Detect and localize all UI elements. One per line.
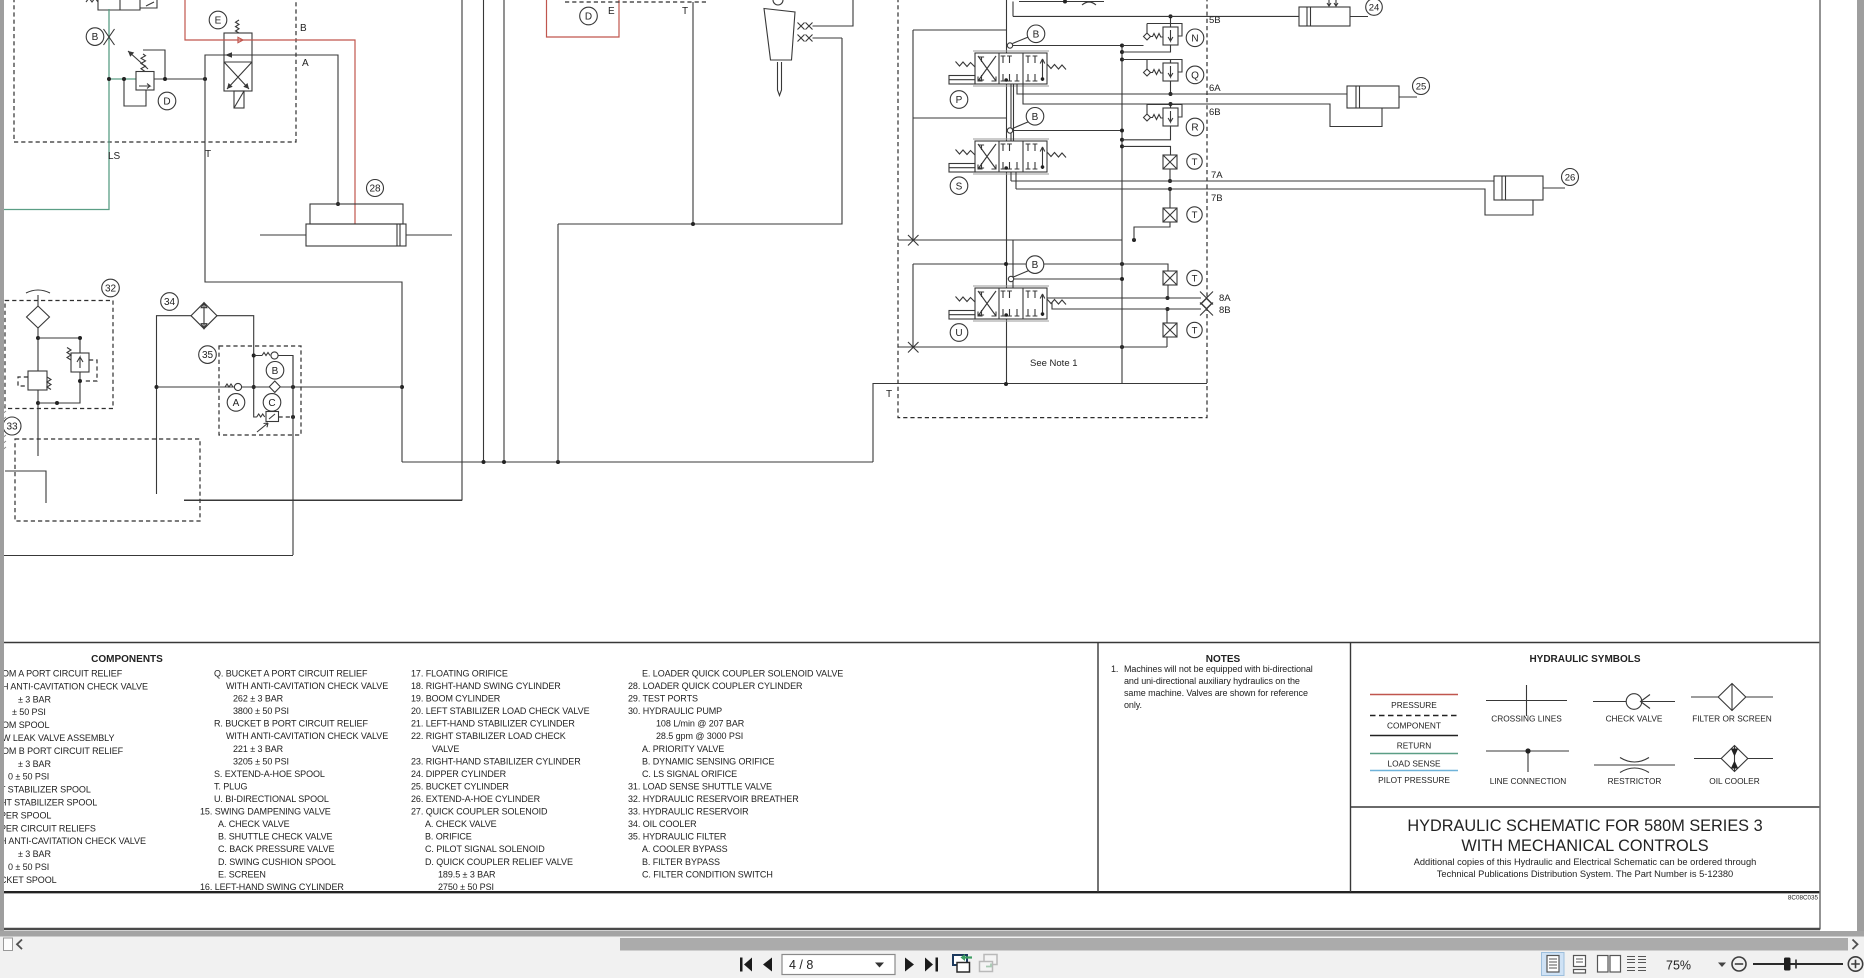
svg-text:A. COOLER BYPASS: A. COOLER BYPASS bbox=[642, 844, 728, 854]
svg-text:32: 32 bbox=[105, 284, 117, 295]
svg-text:35. HYDRAULIC FILTER: 35. HYDRAULIC FILTER bbox=[628, 832, 727, 842]
svg-text:± 3 BAR: ± 3 BAR bbox=[18, 759, 51, 769]
svg-text:E. SCREEN: E. SCREEN bbox=[218, 869, 266, 879]
svg-text:A: A bbox=[302, 58, 309, 69]
svg-text:7A: 7A bbox=[1211, 170, 1223, 181]
svg-text:OM B PORT CIRCUIT RELIEF: OM B PORT CIRCUIT RELIEF bbox=[2, 746, 124, 756]
svg-text:3800 ± 50 PSI: 3800 ± 50 PSI bbox=[233, 706, 289, 716]
svg-text:C. FILTER CONDITION SWITCH: C. FILTER CONDITION SWITCH bbox=[642, 869, 773, 879]
svg-text:Machines will not be equipped: Machines will not be equipped with bi-di… bbox=[1124, 664, 1313, 674]
svg-text:same machine. Valves are shown: same machine. Valves are shown for refer… bbox=[1124, 688, 1308, 698]
svg-text:C. PILOT SIGNAL SOLENOID: C. PILOT SIGNAL SOLENOID bbox=[425, 844, 545, 854]
svg-text:PER CIRCUIT RELIEFS: PER CIRCUIT RELIEFS bbox=[0, 823, 96, 833]
svg-text:D: D bbox=[585, 12, 592, 23]
svg-text:CHECK VALVE: CHECK VALVE bbox=[1606, 714, 1663, 724]
svg-text:HYDRAULIC SYMBOLS: HYDRAULIC SYMBOLS bbox=[1529, 654, 1640, 665]
svg-text:22. RIGHT STABILIZER LOAD CH: 22. RIGHT STABILIZER LOAD CHECK bbox=[411, 731, 566, 741]
svg-text:D. QUICK COUPLER RELIEF VALVE: D. QUICK COUPLER RELIEF VALVE bbox=[425, 857, 573, 867]
svg-text:CROSSING LINES: CROSSING LINES bbox=[1491, 714, 1562, 724]
svg-text:33: 33 bbox=[6, 422, 18, 433]
svg-text:CKET SPOOL: CKET SPOOL bbox=[0, 875, 57, 885]
svg-text:LOAD SENSE: LOAD SENSE bbox=[1387, 759, 1440, 769]
svg-text:and uni-directional auxiliary: and uni-directional auxiliary hydraulics… bbox=[1124, 676, 1300, 686]
svg-text:Additional copies of this Hydr: Additional copies of this Hydraulic and … bbox=[1414, 857, 1757, 867]
svg-text:C: C bbox=[268, 398, 275, 409]
svg-text:1.: 1. bbox=[1111, 664, 1118, 674]
svg-text:COMPONENTS: COMPONENTS bbox=[91, 654, 163, 665]
svg-text:0 ± 50 PSI: 0 ± 50 PSI bbox=[8, 862, 49, 872]
svg-text:6A: 6A bbox=[1209, 83, 1221, 94]
svg-text:WITH MECHANICAL CONTROLS: WITH MECHANICAL CONTROLS bbox=[1461, 837, 1708, 855]
svg-text:221 ± 3 BAR: 221 ± 3 BAR bbox=[233, 744, 284, 754]
svg-text:A. CHECK VALVE: A. CHECK VALVE bbox=[425, 819, 497, 829]
svg-text:25. BUCKET CYLINDER: 25. BUCKET CYLINDER bbox=[411, 782, 509, 792]
svg-text:27. QUICK COUPLER SOLENOID: 27. QUICK COUPLER SOLENOID bbox=[411, 807, 548, 817]
svg-text:T: T bbox=[1192, 326, 1198, 337]
svg-text:R. BUCKET B PORT CIRCUIT RELIE: R. BUCKET B PORT CIRCUIT RELIEF bbox=[214, 719, 368, 729]
svg-text:C. BACK PRESSURE VALVE: C. BACK PRESSURE VALVE bbox=[218, 844, 335, 854]
svg-text:T: T bbox=[205, 149, 211, 160]
svg-text:PER SPOOL: PER SPOOL bbox=[0, 810, 51, 820]
svg-text:108 L/min @ 207 BAR: 108 L/min @ 207 BAR bbox=[656, 719, 745, 729]
svg-text:S. EXTEND-A-HOE SPOOL: S. EXTEND-A-HOE SPOOL bbox=[214, 769, 325, 779]
svg-text:5B: 5B bbox=[1209, 15, 1221, 26]
svg-text:HT STABILIZER SPOOL: HT STABILIZER SPOOL bbox=[0, 798, 97, 808]
svg-text:D. SWING CUSHION SPOOL: D. SWING CUSHION SPOOL bbox=[218, 857, 336, 867]
svg-text:N: N bbox=[1191, 33, 1198, 44]
svg-text:U. BI-DIRECTIONAL SPOOL: U. BI-DIRECTIONAL SPOOL bbox=[214, 794, 329, 804]
svg-text:E. LOADER QUICK COUPLER SOLENO: E. LOADER QUICK COUPLER SOLENOID VALVE bbox=[642, 669, 843, 679]
svg-text:A: A bbox=[233, 398, 240, 409]
svg-text:T: T bbox=[1192, 210, 1198, 221]
svg-text:2750 ± 50 PSI: 2750 ± 50 PSI bbox=[438, 882, 494, 892]
svg-text:28. LOADER QUICK COUPLER CYL: 28. LOADER QUICK COUPLER CYLINDER bbox=[628, 681, 803, 691]
svg-text:OIL COOLER: OIL COOLER bbox=[1709, 776, 1759, 786]
svg-text:P: P bbox=[956, 95, 963, 106]
svg-text:8C08C035: 8C08C035 bbox=[1788, 895, 1819, 902]
svg-text:32. HYDRAULIC RESERVOIR BREA: 32. HYDRAULIC RESERVOIR BREATHER bbox=[628, 794, 799, 804]
svg-text:Q: Q bbox=[1191, 71, 1199, 82]
svg-text:19. BOOM CYLINDER: 19. BOOM CYLINDER bbox=[411, 694, 501, 704]
svg-text:LS: LS bbox=[108, 151, 121, 162]
svg-text:E: E bbox=[608, 6, 615, 17]
svg-text:RETURN: RETURN bbox=[1397, 741, 1432, 751]
svg-text:0 ± 50 PSI: 0 ± 50 PSI bbox=[8, 772, 49, 782]
svg-text:A. CHECK VALVE: A. CHECK VALVE bbox=[218, 819, 290, 829]
svg-text:26: 26 bbox=[1565, 172, 1576, 183]
svg-text:T: T bbox=[1192, 157, 1198, 168]
svg-text:H ANTI-CAVITATION CHECK VALVE: H ANTI-CAVITATION CHECK VALVE bbox=[0, 836, 146, 846]
svg-text:LINE CONNECTION: LINE CONNECTION bbox=[1490, 776, 1567, 786]
svg-text:4 / 8: 4 / 8 bbox=[789, 958, 813, 972]
svg-text:18. RIGHT-HAND SWING CYLINDE: 18. RIGHT-HAND SWING CYLINDER bbox=[411, 681, 561, 691]
svg-text:25: 25 bbox=[1416, 81, 1427, 92]
svg-text:34: 34 bbox=[164, 297, 176, 308]
svg-text:28: 28 bbox=[369, 184, 381, 195]
svg-text:B: B bbox=[1032, 260, 1039, 271]
svg-text:3205 ± 50 PSI: 3205 ± 50 PSI bbox=[233, 756, 289, 766]
svg-text:33. HYDRAULIC RESERVOIR: 33. HYDRAULIC RESERVOIR bbox=[628, 807, 749, 817]
svg-text:WITH ANTI-CAVITATION CHECK VAL: WITH ANTI-CAVITATION CHECK VALVE bbox=[226, 731, 388, 741]
svg-text:T: T bbox=[682, 6, 688, 17]
svg-text:17. FLOATING ORIFICE: 17. FLOATING ORIFICE bbox=[411, 669, 508, 679]
svg-text:B. FILTER BYPASS: B. FILTER BYPASS bbox=[642, 857, 720, 867]
svg-text:OM A PORT CIRCUIT RELIEF: OM A PORT CIRCUIT RELIEF bbox=[2, 669, 123, 679]
svg-text:PRESSURE: PRESSURE bbox=[1391, 700, 1437, 710]
svg-text:D: D bbox=[163, 97, 170, 108]
svg-text:RESTRICTOR: RESTRICTOR bbox=[1608, 776, 1662, 786]
svg-text:B. SHUTTLE CHECK VALVE: B. SHUTTLE CHECK VALVE bbox=[218, 832, 333, 842]
svg-text:B. ORIFICE: B. ORIFICE bbox=[425, 832, 472, 842]
svg-text:34. OIL COOLER: 34. OIL COOLER bbox=[628, 819, 697, 829]
svg-text:8A: 8A bbox=[1219, 293, 1231, 304]
svg-text:Q. BUCKET A PORT CIRCUIT RELIE: Q. BUCKET A PORT CIRCUIT RELIEF bbox=[214, 669, 368, 679]
svg-text:PILOT PRESSURE: PILOT PRESSURE bbox=[1378, 775, 1450, 785]
svg-text:See Note 1: See Note 1 bbox=[1030, 358, 1078, 369]
svg-text:21. LEFT-HAND STABILIZER CYL: 21. LEFT-HAND STABILIZER CYLINDER bbox=[411, 719, 575, 729]
svg-text:W LEAK VALVE ASSEMBLY: W LEAK VALVE ASSEMBLY bbox=[2, 733, 114, 743]
svg-text:189.5 ± 3 BAR: 189.5 ± 3 BAR bbox=[438, 869, 496, 879]
svg-text:20. LEFT STABILIZER LOAD CHE: 20. LEFT STABILIZER LOAD CHECK VALVE bbox=[411, 706, 590, 716]
svg-text:HYDRAULIC SCHEMATIC FOR 580M S: HYDRAULIC SCHEMATIC FOR 580M SERIES 3 bbox=[1407, 817, 1762, 835]
svg-text:B: B bbox=[300, 23, 307, 34]
svg-text:8B: 8B bbox=[1219, 305, 1231, 316]
svg-text:± 3 BAR: ± 3 BAR bbox=[18, 694, 51, 704]
svg-text:FILTER OR SCREEN: FILTER OR SCREEN bbox=[1692, 714, 1772, 724]
svg-text:T STABILIZER SPOOL: T STABILIZER SPOOL bbox=[0, 785, 91, 795]
svg-text:U: U bbox=[955, 328, 962, 339]
svg-text:7B: 7B bbox=[1211, 193, 1223, 204]
svg-text:only.: only. bbox=[1124, 700, 1142, 710]
svg-text:B: B bbox=[1032, 112, 1039, 123]
svg-text:VALVE: VALVE bbox=[432, 744, 459, 754]
svg-text:T: T bbox=[886, 389, 892, 400]
svg-text:28.5 gpm @ 3000 PSI: 28.5 gpm @ 3000 PSI bbox=[656, 731, 743, 741]
svg-text:26. EXTEND-A-HOE CYLINDER: 26. EXTEND-A-HOE CYLINDER bbox=[411, 794, 541, 804]
svg-text:35: 35 bbox=[202, 350, 214, 361]
svg-text:E: E bbox=[215, 16, 222, 27]
svg-text:OM SPOOL: OM SPOOL bbox=[2, 720, 49, 730]
svg-text:23. RIGHT-HAND STABILIZER CY: 23. RIGHT-HAND STABILIZER CYLINDER bbox=[411, 756, 581, 766]
svg-text:B: B bbox=[92, 32, 99, 43]
svg-text:B. DYNAMIC SENSING ORIFICE: B. DYNAMIC SENSING ORIFICE bbox=[642, 756, 775, 766]
svg-text:B: B bbox=[272, 366, 279, 377]
svg-text:16. LEFT-HAND SWING CYLINDER: 16. LEFT-HAND SWING CYLINDER bbox=[200, 882, 344, 892]
svg-text:± 3 BAR: ± 3 BAR bbox=[18, 849, 51, 859]
svg-text:Technical Publications Distrib: Technical Publications Distribution Syst… bbox=[1437, 869, 1733, 879]
svg-text:± 50 PSI: ± 50 PSI bbox=[12, 707, 46, 717]
svg-text:A. PRIORITY VALVE: A. PRIORITY VALVE bbox=[642, 744, 724, 754]
svg-text:30. HYDRAULIC PUMP: 30. HYDRAULIC PUMP bbox=[628, 706, 722, 716]
svg-text:T: T bbox=[1192, 274, 1198, 285]
svg-text:COMPONENT: COMPONENT bbox=[1387, 721, 1441, 731]
svg-text:C. LS SIGNAL ORIFICE: C. LS SIGNAL ORIFICE bbox=[642, 769, 737, 779]
svg-text:6B: 6B bbox=[1209, 107, 1221, 118]
svg-text:H ANTI-CAVITATION CHECK VALVE: H ANTI-CAVITATION CHECK VALVE bbox=[2, 681, 148, 691]
svg-text:S: S bbox=[956, 181, 963, 192]
svg-text:29. TEST PORTS: 29. TEST PORTS bbox=[628, 694, 698, 704]
svg-text:R: R bbox=[1191, 123, 1198, 134]
svg-text:262 ± 3 BAR: 262 ± 3 BAR bbox=[233, 694, 284, 704]
svg-text:T. PLUG: T. PLUG bbox=[214, 782, 248, 792]
svg-text:31. LOAD SENSE SHUTTLE VALVE: 31. LOAD SENSE SHUTTLE VALVE bbox=[628, 782, 772, 792]
svg-text:15. SWING DAMPENING VALVE: 15. SWING DAMPENING VALVE bbox=[200, 807, 331, 817]
svg-text:B: B bbox=[1033, 29, 1040, 40]
svg-text:75%: 75% bbox=[1666, 959, 1691, 973]
svg-text:24. DIPPER CYLINDER: 24. DIPPER CYLINDER bbox=[411, 769, 507, 779]
svg-text:24: 24 bbox=[1369, 2, 1380, 13]
svg-text:WITH ANTI-CAVITATION CHECK VAL: WITH ANTI-CAVITATION CHECK VALVE bbox=[226, 681, 388, 691]
